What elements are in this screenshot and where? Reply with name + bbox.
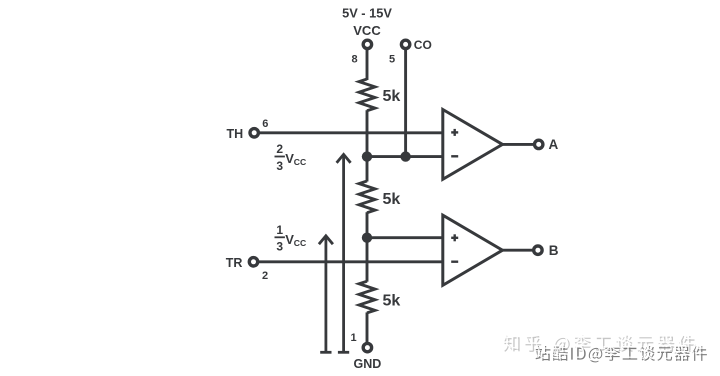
svg-text:1: 1: [350, 332, 356, 344]
svg-text:5V - 15V: 5V - 15V: [342, 5, 392, 20]
op-amp U2 plus input symbol: [451, 234, 458, 241]
terminal CO pin 5: [401, 40, 409, 48]
wire node 2/3 to R2: [366, 157, 369, 182]
svg-text:1: 1: [276, 223, 283, 237]
svg-text:CC: CC: [294, 157, 306, 167]
wire TH horizontal: [259, 131, 443, 134]
terminal output B: [534, 246, 542, 254]
node CO junction dot: [400, 151, 410, 161]
resistor R2: [359, 181, 375, 213]
svg-text:TH: TH: [227, 127, 244, 141]
annotation arrow 1/3 Vcc shaft: [319, 236, 333, 352]
wire node 1/3 to R3: [366, 238, 369, 282]
svg-text:5k: 5k: [383, 88, 401, 105]
svg-text:TR: TR: [226, 256, 243, 270]
op-amp U2 comparator B: [443, 215, 503, 285]
wire R3 to GND: [366, 312, 369, 343]
svg-text:3: 3: [276, 239, 283, 253]
svg-text:VCC: VCC: [353, 23, 381, 38]
watermark row 2: zcool id @ user (embossed dark): [534, 344, 707, 362]
svg-text:5k: 5k: [383, 292, 401, 309]
wire output B: [503, 249, 534, 252]
wire R1 to node 2/3: [366, 110, 369, 156]
svg-text:2: 2: [262, 270, 268, 282]
wire TR horizontal: [258, 260, 443, 263]
terminal TR pin 2: [249, 258, 257, 266]
svg-text:CC: CC: [294, 238, 306, 248]
svg-text:2: 2: [276, 142, 283, 156]
svg-text:8: 8: [351, 54, 357, 66]
node 2/3 Vcc junction dot: [362, 151, 372, 161]
wire node 1/3 to comparator B plus: [367, 236, 443, 239]
svg-text:6: 6: [262, 118, 268, 130]
op-amp U1 plus input symbol: [451, 129, 458, 136]
wire node 2/3 to comparator A minus: [367, 155, 443, 158]
svg-text:5k: 5k: [383, 191, 401, 208]
label 2/3 Vcc: [275, 142, 307, 173]
svg-text:3: 3: [276, 159, 283, 173]
label 1/3 Vcc: [275, 223, 307, 253]
op-amp U1 minus input symbol: [451, 155, 458, 157]
resistor R1: [359, 79, 375, 111]
svg-text:GND: GND: [354, 357, 382, 371]
svg-text:5: 5: [389, 54, 395, 66]
wire R2 to node 1/3: [366, 212, 369, 238]
wire VCC to R1: [366, 50, 369, 80]
annotation arrow 2/3 Vcc shaft: [337, 154, 351, 352]
svg-text:B: B: [549, 243, 559, 258]
op-amp U2 minus input symbol: [451, 261, 458, 263]
terminal output A: [535, 140, 543, 148]
node 1/3 Vcc junction dot: [362, 233, 372, 243]
svg-text:A: A: [549, 137, 559, 152]
terminal VCC pin 8: [363, 40, 371, 48]
svg-text:CO: CO: [414, 38, 432, 52]
wire output A: [503, 143, 535, 146]
resistor R3: [359, 281, 375, 313]
wire CO vertical: [404, 50, 407, 157]
terminal TH pin 6: [250, 129, 258, 137]
terminal GND pin 1: [363, 343, 371, 351]
watermark row 1: zhihu @ user (embossed light): [503, 334, 696, 353]
op-amp U1 comparator A: [443, 110, 503, 180]
